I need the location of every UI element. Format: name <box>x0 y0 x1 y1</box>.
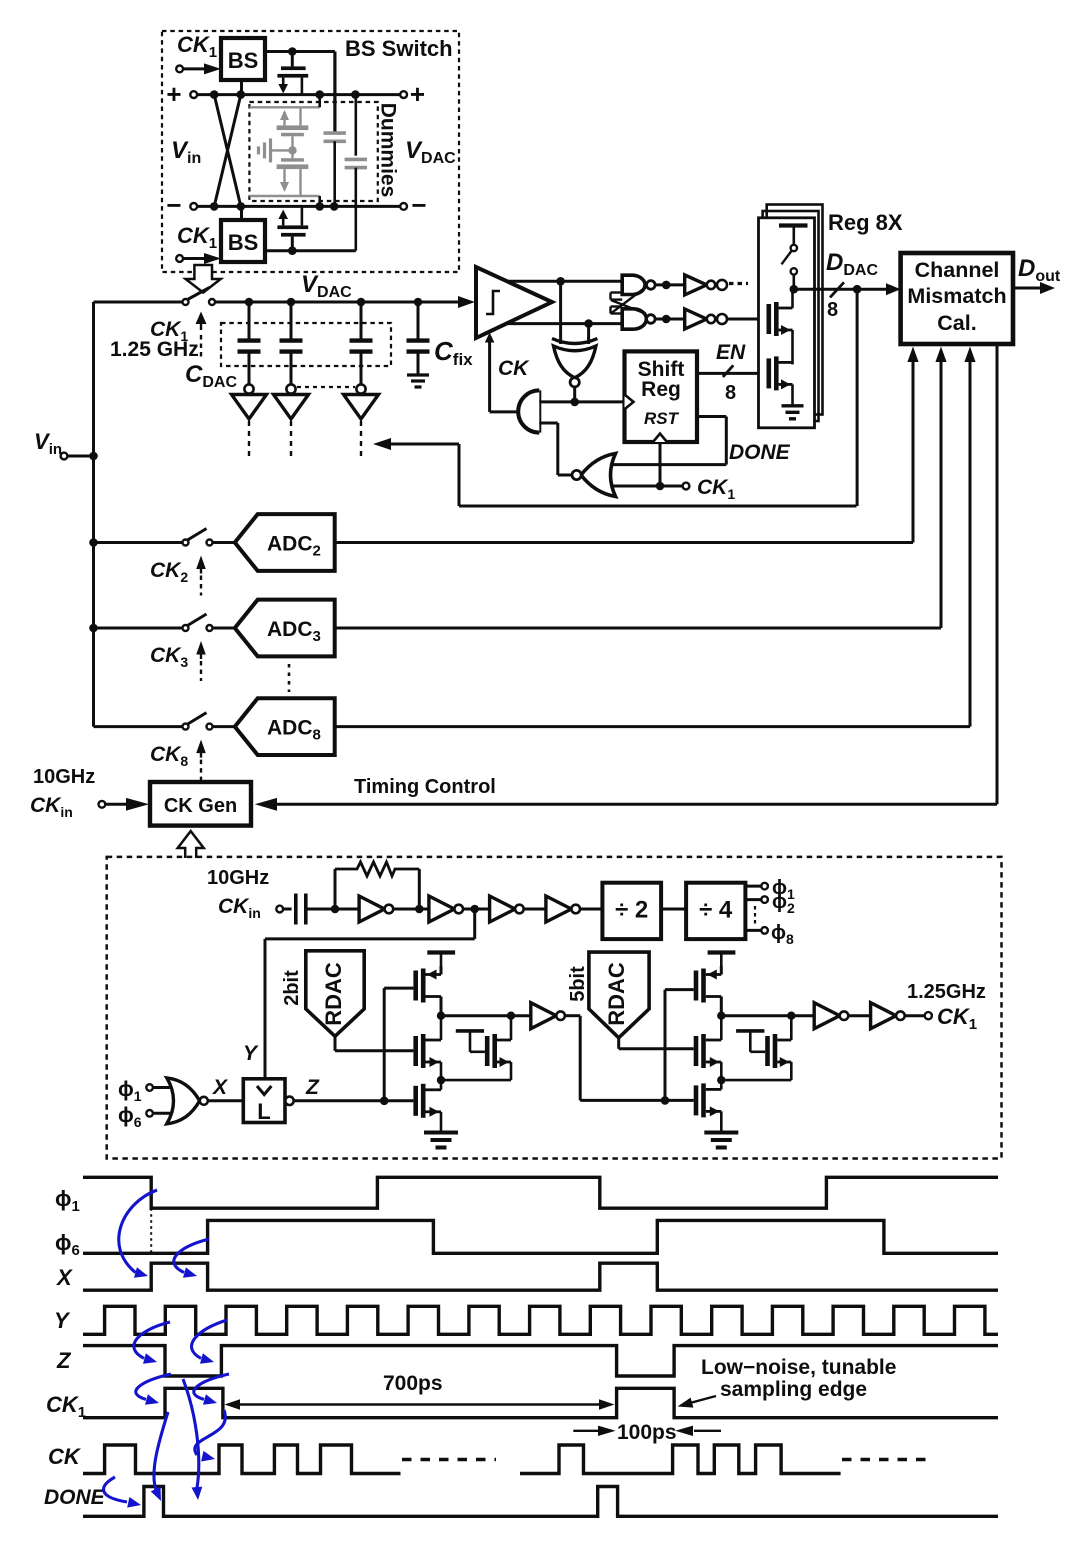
svg-text:L: L <box>257 1099 270 1124</box>
terminal CKin (detail) <box>276 906 291 913</box>
label CK1 sampling <box>150 318 188 344</box>
wire xnor in2 <box>587 324 590 344</box>
svg-text:8: 8 <box>827 299 838 321</box>
label VDAC top <box>301 271 352 301</box>
svg-text:Reg: Reg <box>641 378 681 401</box>
blue arrow to DONE edge long <box>151 1412 168 1501</box>
node stack1 mid <box>437 1076 445 1084</box>
divider by4 box <box>686 883 745 939</box>
DAC driver inverter 3 <box>344 384 379 461</box>
wire CK into comparator <box>485 333 495 412</box>
BS Switch outer dashed box <box>162 31 459 272</box>
BS buffer box top (BS) <box>221 38 265 80</box>
inverter I2 <box>429 896 463 922</box>
reg switch <box>782 245 798 289</box>
node stack2 out <box>717 1012 725 1020</box>
terminal phi1 (latch) <box>118 1078 170 1104</box>
svg-text:RDAC: RDAC <box>604 962 629 1026</box>
label CK2 <box>150 559 188 585</box>
terminal phi8 <box>745 927 767 934</box>
label CKin (ckgen) <box>30 794 73 820</box>
label X <box>212 1076 229 1099</box>
svg-text:Z: Z <box>56 1348 72 1373</box>
node stack1 out <box>437 1012 445 1020</box>
inverter out A <box>814 1003 848 1029</box>
dots between adc3 adc8 <box>288 664 291 692</box>
clock gen dashed box <box>107 857 1002 1159</box>
sr cross-coupling <box>611 287 647 314</box>
nand U2 top <box>622 275 685 294</box>
shift register box <box>625 351 698 442</box>
label BS Switch <box>345 36 453 61</box>
svg-text:BS: BS <box>228 48 259 73</box>
svg-text:Low−noise, tunable: Low−noise, tunable <box>701 1356 896 1379</box>
svg-text:700ps: 700ps <box>383 1372 443 1395</box>
wire BS bottom output <box>265 246 356 255</box>
label RDAC 5bit <box>604 962 629 1026</box>
CDAC dashed box <box>221 323 391 366</box>
wire DDAC out <box>794 283 901 295</box>
svg-text:5bit: 5bit <box>567 966 589 1002</box>
switch-arrow CK2 <box>196 556 206 596</box>
DAC driver inverter 1 <box>232 384 267 461</box>
reg ground <box>782 406 804 419</box>
wire timing control vertical <box>996 344 999 804</box>
svg-text:10GHz: 10GHz <box>207 867 269 889</box>
wire VDAC main <box>215 296 475 308</box>
inverter mid <box>531 1003 565 1029</box>
blue arrow phi1-X <box>119 1190 157 1278</box>
svg-text:1.25GHz: 1.25GHz <box>907 981 986 1003</box>
wire CK1 term <box>612 483 690 490</box>
label CK1 bottom-left <box>177 223 217 252</box>
switch-arrow CK8 <box>196 740 206 784</box>
mos-cap bias bar 2 <box>736 1031 765 1052</box>
label Cfix <box>434 336 473 369</box>
svg-text:Mismatch: Mismatch <box>907 284 1006 308</box>
vdd bar stack2 <box>708 953 736 967</box>
input terminal CK1 bottom <box>176 253 221 264</box>
label Dummies <box>377 103 400 198</box>
hollow arrow BS to VDAC switch <box>186 265 221 293</box>
svg-text:2bit: 2bit <box>281 970 303 1006</box>
wire div2-div4 <box>661 908 686 911</box>
label - left <box>166 190 181 220</box>
svg-text:RST: RST <box>644 409 680 428</box>
slash DDAC <box>830 282 844 297</box>
label 1.25 GHz <box>110 338 199 361</box>
svg-text:Channel: Channel <box>915 258 1000 282</box>
wire rdac1 out <box>335 1036 413 1051</box>
label CK1 (wave) <box>46 1392 86 1421</box>
label 8 EN <box>725 382 736 404</box>
blue arrow phi6-X <box>174 1239 209 1278</box>
wire rdac2 out <box>619 1038 694 1049</box>
label low-noise <box>701 1356 896 1401</box>
terminal phi1 <box>745 883 767 890</box>
reg transistor M2 <box>767 356 793 404</box>
wire BS top output <box>265 47 335 131</box>
blue arrow Z-CK1 fall <box>194 1374 229 1405</box>
annotation 700ps arrow <box>225 1399 615 1409</box>
transistor bootstrap bottom <box>277 206 308 250</box>
wire Z to top gate <box>384 988 413 1101</box>
svg-text:X: X <box>55 1265 73 1290</box>
resistor feedback <box>335 862 419 909</box>
dummy transistor upper gray <box>277 107 309 150</box>
blue arrow Y-Z rise <box>191 1320 227 1364</box>
blue arrow Y-Z fall <box>134 1322 170 1364</box>
DAC driver inverter 2 <box>274 384 309 461</box>
capacitor CDAC-1 <box>238 302 261 384</box>
feedback arrow to DAC <box>373 438 857 506</box>
wire adc2 up arrow <box>907 347 918 543</box>
transistor T3 stack1 <box>413 1080 441 1131</box>
node stack2 mid <box>717 1076 725 1084</box>
wire VDAC left <box>94 301 183 304</box>
wire and out to shiftreg clk <box>539 400 625 403</box>
label Timing Control <box>354 776 496 798</box>
wire xnor out <box>570 387 579 406</box>
hollow arrow ckgen <box>178 831 204 858</box>
label + left <box>166 79 181 109</box>
wire BS box bottom stem <box>240 206 243 220</box>
wire EN bus <box>697 372 767 375</box>
dotted edge marker <box>150 1208 152 1253</box>
wire - rail <box>190 202 407 211</box>
nand U3 bottom <box>622 309 685 329</box>
svg-text:Y: Y <box>54 1308 71 1333</box>
svg-text:Timing Control: Timing Control <box>354 776 496 798</box>
ck gen box <box>150 782 251 826</box>
wire DONE <box>611 417 727 465</box>
capacitor ac-couple <box>296 894 335 925</box>
label phi1 (wave) <box>55 1186 80 1215</box>
label DONE (wave) <box>44 1486 106 1509</box>
waveform CK dashes1 <box>402 1458 496 1461</box>
wire CK to and <box>490 410 519 413</box>
svg-text:−: − <box>166 190 181 220</box>
wire RST <box>656 442 665 490</box>
terminal Vin <box>61 453 94 460</box>
svg-text:sampling edge: sampling edge <box>720 1378 867 1401</box>
dashes phi2-phi8 <box>754 906 756 926</box>
label Z (wave) <box>56 1348 72 1373</box>
dummy capacitor C1 gray <box>324 133 346 206</box>
dummy rail bottom gray <box>249 196 319 206</box>
transistor bootstrap top <box>277 52 308 95</box>
svg-text:DONE: DONE <box>44 1486 106 1509</box>
label 8 DDAC <box>827 299 838 321</box>
nor gate U9 <box>167 1078 208 1124</box>
node DDAC <box>790 285 799 294</box>
BS buffer box bottom (BS) <box>221 220 265 262</box>
wire Z <box>294 1097 414 1106</box>
label CK (wave) <box>48 1444 82 1469</box>
label Z <box>305 1076 320 1099</box>
wire comparator out- <box>506 319 622 328</box>
label Y (wave) <box>54 1308 71 1333</box>
label CDAC <box>185 361 237 391</box>
svg-text:+: + <box>166 79 181 109</box>
capacitor CDAC-2 <box>280 302 303 384</box>
transistor T3 stack2 <box>694 1080 722 1131</box>
xnor U6 <box>552 339 597 387</box>
svg-text:EN: EN <box>716 341 746 364</box>
adc8 row <box>94 698 971 755</box>
svg-text:Z: Z <box>305 1076 320 1099</box>
wire adc8 up arrow <box>964 347 975 727</box>
reg 8x stacked boxes <box>759 205 823 428</box>
nor gate U8 (mirrored) <box>572 454 616 497</box>
dummy transistor lower gray <box>277 150 309 196</box>
svg-text:÷ 4: ÷ 4 <box>699 897 733 924</box>
terminal phi6 (latch) <box>118 1104 170 1130</box>
arrow CK1 to switch <box>196 312 207 358</box>
wire buffer to reg gate <box>727 318 767 321</box>
label X (wave) <box>55 1265 73 1290</box>
label DDAC <box>826 249 878 279</box>
wire t1 drain <box>440 966 443 1016</box>
svg-text:DONE: DONE <box>729 441 791 464</box>
blue arrow CK-DONE <box>104 1477 141 1508</box>
label 2bit <box>281 970 303 1006</box>
label CK8 <box>150 743 188 769</box>
waveform CK part2 <box>520 1445 841 1474</box>
label Vin (BS) <box>171 137 201 167</box>
label VDAC (BS) <box>405 137 456 167</box>
wire nor out <box>558 474 572 477</box>
input terminal CK1 top <box>176 63 221 74</box>
reg vdd bar <box>779 226 808 245</box>
wire and second input <box>539 423 558 475</box>
label CK <box>498 357 530 380</box>
label DONE <box>729 441 791 464</box>
label 10GHz (ckgen) <box>33 766 95 788</box>
label CK1 top-left <box>177 32 217 61</box>
blue arrow CK1-CK <box>195 1410 226 1462</box>
label phi6 (wave) <box>55 1230 80 1259</box>
waveform CK dashes2 <box>842 1458 934 1461</box>
label 700ps <box>383 1372 443 1395</box>
and gate U7 (mirrored) <box>518 390 539 432</box>
rdac 5bit pentagon <box>589 952 649 1038</box>
annotation 100ps arrows <box>573 1426 721 1436</box>
mos-cap bias bar 1 <box>456 1031 485 1052</box>
switch CK1 sampling <box>183 288 216 306</box>
transistor T1 stack1 <box>413 969 441 1003</box>
wire inv mid out <box>565 1016 694 1105</box>
wire xnor in1 <box>559 281 562 344</box>
dummy node gray <box>288 146 296 154</box>
label CK1 out <box>937 1004 977 1033</box>
label 5bit <box>567 966 589 1002</box>
divider by2 box <box>602 883 661 939</box>
svg-text:+: + <box>410 79 425 109</box>
waveform X <box>83 1263 998 1290</box>
label Vin <box>34 429 62 458</box>
wire comparator out+ <box>507 277 622 286</box>
label Reg 8X <box>828 210 903 235</box>
svg-text:Y: Y <box>243 1042 259 1065</box>
label phi2 <box>772 891 795 916</box>
channel mismatch cal box <box>901 253 1013 344</box>
label 100ps <box>617 1421 677 1444</box>
label 10GHz (detail) <box>207 867 269 889</box>
wire t1b drain <box>720 966 723 1016</box>
mos-cap transistor 1 <box>445 1016 511 1080</box>
svg-text:BS Switch: BS Switch <box>345 36 453 61</box>
ellipsis after buffer <box>729 282 748 285</box>
svg-text:8: 8 <box>725 382 736 404</box>
waveform phi1 <box>83 1177 998 1208</box>
label CK1 (logic) <box>697 476 735 502</box>
wire Vin vertical <box>89 302 98 727</box>
dummy rail top gray <box>249 95 319 108</box>
node after I2 <box>463 905 490 914</box>
wire cross couple X <box>214 95 241 207</box>
blue arrow Z-CK1 rise <box>136 1374 171 1405</box>
rdac 2bit pentagon <box>306 951 364 1037</box>
wire adc3 up arrow <box>935 347 946 629</box>
svg-text:10GHz: 10GHz <box>33 766 95 788</box>
terminal CKin (ckgen) <box>99 798 150 811</box>
svg-text:BS: BS <box>228 230 259 255</box>
wire + rail <box>190 90 407 99</box>
dashed link inverters <box>297 386 355 388</box>
waveform DONE <box>83 1487 998 1517</box>
bubble Z <box>285 1097 293 1105</box>
latch box L <box>243 1079 285 1124</box>
mos-cap transistor 2 <box>725 1016 791 1080</box>
buffer U5 bottom <box>685 309 727 329</box>
blue arrow Z-DONE long <box>183 1379 202 1500</box>
switch-arrow CK3 <box>196 641 206 681</box>
svg-text:Reg 8X: Reg 8X <box>828 210 903 235</box>
adc3 row <box>94 600 942 657</box>
svg-text:−: − <box>411 190 426 220</box>
wire inv to stack2 top gate <box>665 990 694 1101</box>
slash EN bus <box>723 365 733 377</box>
svg-text:X: X <box>212 1076 229 1099</box>
svg-text:CK Gen: CK Gen <box>164 795 237 817</box>
terminal CK1 out <box>905 1012 932 1019</box>
reg transistor M1 <box>767 289 793 364</box>
wire stack2 out <box>721 1012 814 1020</box>
label EN <box>716 341 746 364</box>
label phi8 <box>771 922 794 947</box>
ground stack1 <box>424 1133 458 1148</box>
vdd bar stack1 <box>427 953 455 967</box>
dummy capacitor C2 gray <box>345 95 367 251</box>
svg-text:CK: CK <box>48 1444 82 1469</box>
wire X <box>208 1099 244 1102</box>
label + right <box>410 79 425 109</box>
wire timing control <box>255 798 997 811</box>
waveform CK part1 <box>83 1445 401 1474</box>
comparator U1 <box>476 267 552 338</box>
waveform Y <box>83 1306 998 1334</box>
waveform CK1 <box>83 1388 998 1417</box>
buffer U4 top <box>685 275 727 295</box>
label phi1 <box>772 877 795 902</box>
label Dout <box>1018 255 1061 285</box>
svg-text:Cal.: Cal. <box>937 311 976 335</box>
wire Dout arrow <box>1013 282 1055 294</box>
inverter out B <box>871 1003 905 1029</box>
inverter I3 <box>490 896 546 922</box>
wire BS box top stem <box>240 80 243 95</box>
wire stack1 out <box>441 1012 531 1020</box>
adc2 row <box>94 514 914 571</box>
transistor T2 stack1 <box>413 1016 441 1080</box>
svg-text:Dummies: Dummies <box>377 103 400 198</box>
label Y <box>243 1042 259 1065</box>
label 1.25GHz <box>907 981 986 1003</box>
terminal phi2 <box>745 896 767 903</box>
dummy mos-cap gray <box>259 138 289 162</box>
arrow low-noise <box>678 1396 717 1408</box>
transistor T1 stack2 <box>694 969 722 1003</box>
label - right <box>411 190 426 220</box>
svg-text:1.25 GHz: 1.25 GHz <box>110 338 199 361</box>
ground Cfix <box>407 375 429 387</box>
ground stack2 <box>704 1133 738 1148</box>
svg-text:÷ 2: ÷ 2 <box>615 897 648 924</box>
node after I1 <box>393 905 429 914</box>
wire Y feedback <box>265 909 475 1079</box>
label CKin (detail) <box>218 895 261 921</box>
svg-text:CK: CK <box>498 357 530 380</box>
label CK3 <box>150 644 188 670</box>
svg-text:RDAC: RDAC <box>321 962 346 1026</box>
dummies dashed box <box>249 102 377 201</box>
transistor T2 stack2 <box>694 1016 722 1080</box>
capacitor Cfix <box>407 302 430 374</box>
waveform Z <box>83 1346 998 1376</box>
inverter I1 <box>339 896 393 922</box>
capacitor CDAC-3 <box>350 302 373 384</box>
inverter I4 <box>546 896 603 922</box>
svg-text:100ps: 100ps <box>617 1421 677 1444</box>
node after cap <box>331 905 340 914</box>
waveform phi6 <box>83 1220 998 1253</box>
wire invA-invB <box>848 1014 870 1017</box>
wire DDAC feedback <box>856 289 859 506</box>
